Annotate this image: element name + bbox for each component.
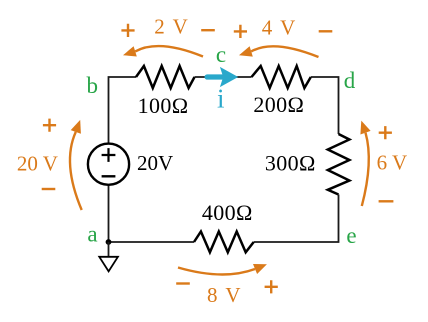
wire node a up to source: [108, 185, 110, 242]
resistor R3 300ohm: [328, 134, 350, 195]
label minus (4V): [319, 30, 333, 32]
svg-text:b: b: [87, 73, 99, 98]
svg-text:300Ω: 300Ω: [265, 150, 316, 175]
svg-text:100Ω: 100Ω: [138, 93, 189, 118]
wire R2 to d to R3 (top-right corner): [311, 77, 339, 134]
label plus (20V): [43, 119, 56, 132]
label plus (4V): [234, 25, 247, 38]
resistor R1 100ohm: [136, 66, 195, 88]
arrowhead 2V: [123, 46, 137, 56]
arrow arc for 8V (bottom): [178, 268, 255, 275]
wire b to R1 (top-left horizontal): [109, 77, 137, 144]
arrow arc for 4V (top-right): [251, 46, 318, 57]
svg-text:6 V: 6 V: [377, 151, 408, 175]
svg-text:4 V: 4 V: [262, 15, 296, 39]
arrowhead 8V: [253, 264, 267, 274]
ground symbol: [99, 257, 118, 272]
svg-text:d: d: [344, 68, 356, 93]
arrowhead 20V: [71, 120, 81, 134]
svg-text:20 V: 20 V: [17, 151, 58, 175]
ground stub wire: [108, 242, 110, 257]
current arrow i (cyan) shaft: [207, 74, 223, 79]
label minus (20V): [42, 188, 56, 190]
svg-text:2 V: 2 V: [154, 14, 188, 38]
resistor R4 400ohm: [194, 232, 254, 253]
label plus (8V): [265, 280, 278, 293]
svg-text:c: c: [216, 42, 226, 67]
node a junction dot: [106, 239, 112, 245]
wire R1 to R2 (through node c): [195, 76, 252, 78]
svg-text:400Ω: 400Ω: [202, 200, 253, 225]
svg-text:20V: 20V: [137, 151, 173, 175]
arrowhead 6V: [360, 121, 370, 135]
label minus (8V): [176, 282, 190, 284]
arrow arc for 6V (right): [362, 133, 369, 206]
svg-text:i: i: [217, 84, 225, 114]
arrowhead 4V: [239, 46, 253, 56]
voltage source minus: [102, 175, 116, 177]
resistor R2 200ohm: [252, 66, 311, 88]
label minus (2V): [201, 29, 215, 31]
voltage source plus: [102, 148, 116, 162]
svg-text:200Ω: 200Ω: [253, 92, 304, 117]
svg-text:e: e: [346, 223, 356, 248]
svg-text:a: a: [87, 221, 97, 246]
label minus (6V): [379, 200, 394, 202]
arrow arc for 20V (left): [70, 132, 82, 210]
wire R4 to node a (bottom-left): [109, 241, 195, 243]
svg-text:8 V: 8 V: [207, 283, 241, 307]
current arrow i head: [220, 67, 238, 87]
voltage source V1 circle: [88, 144, 129, 185]
arrow arc for 2V (top-left): [135, 46, 203, 56]
label plus (6V): [379, 126, 392, 139]
wire R3 to e (right-bottom corner): [254, 195, 339, 243]
label plus (2V): [121, 24, 134, 37]
